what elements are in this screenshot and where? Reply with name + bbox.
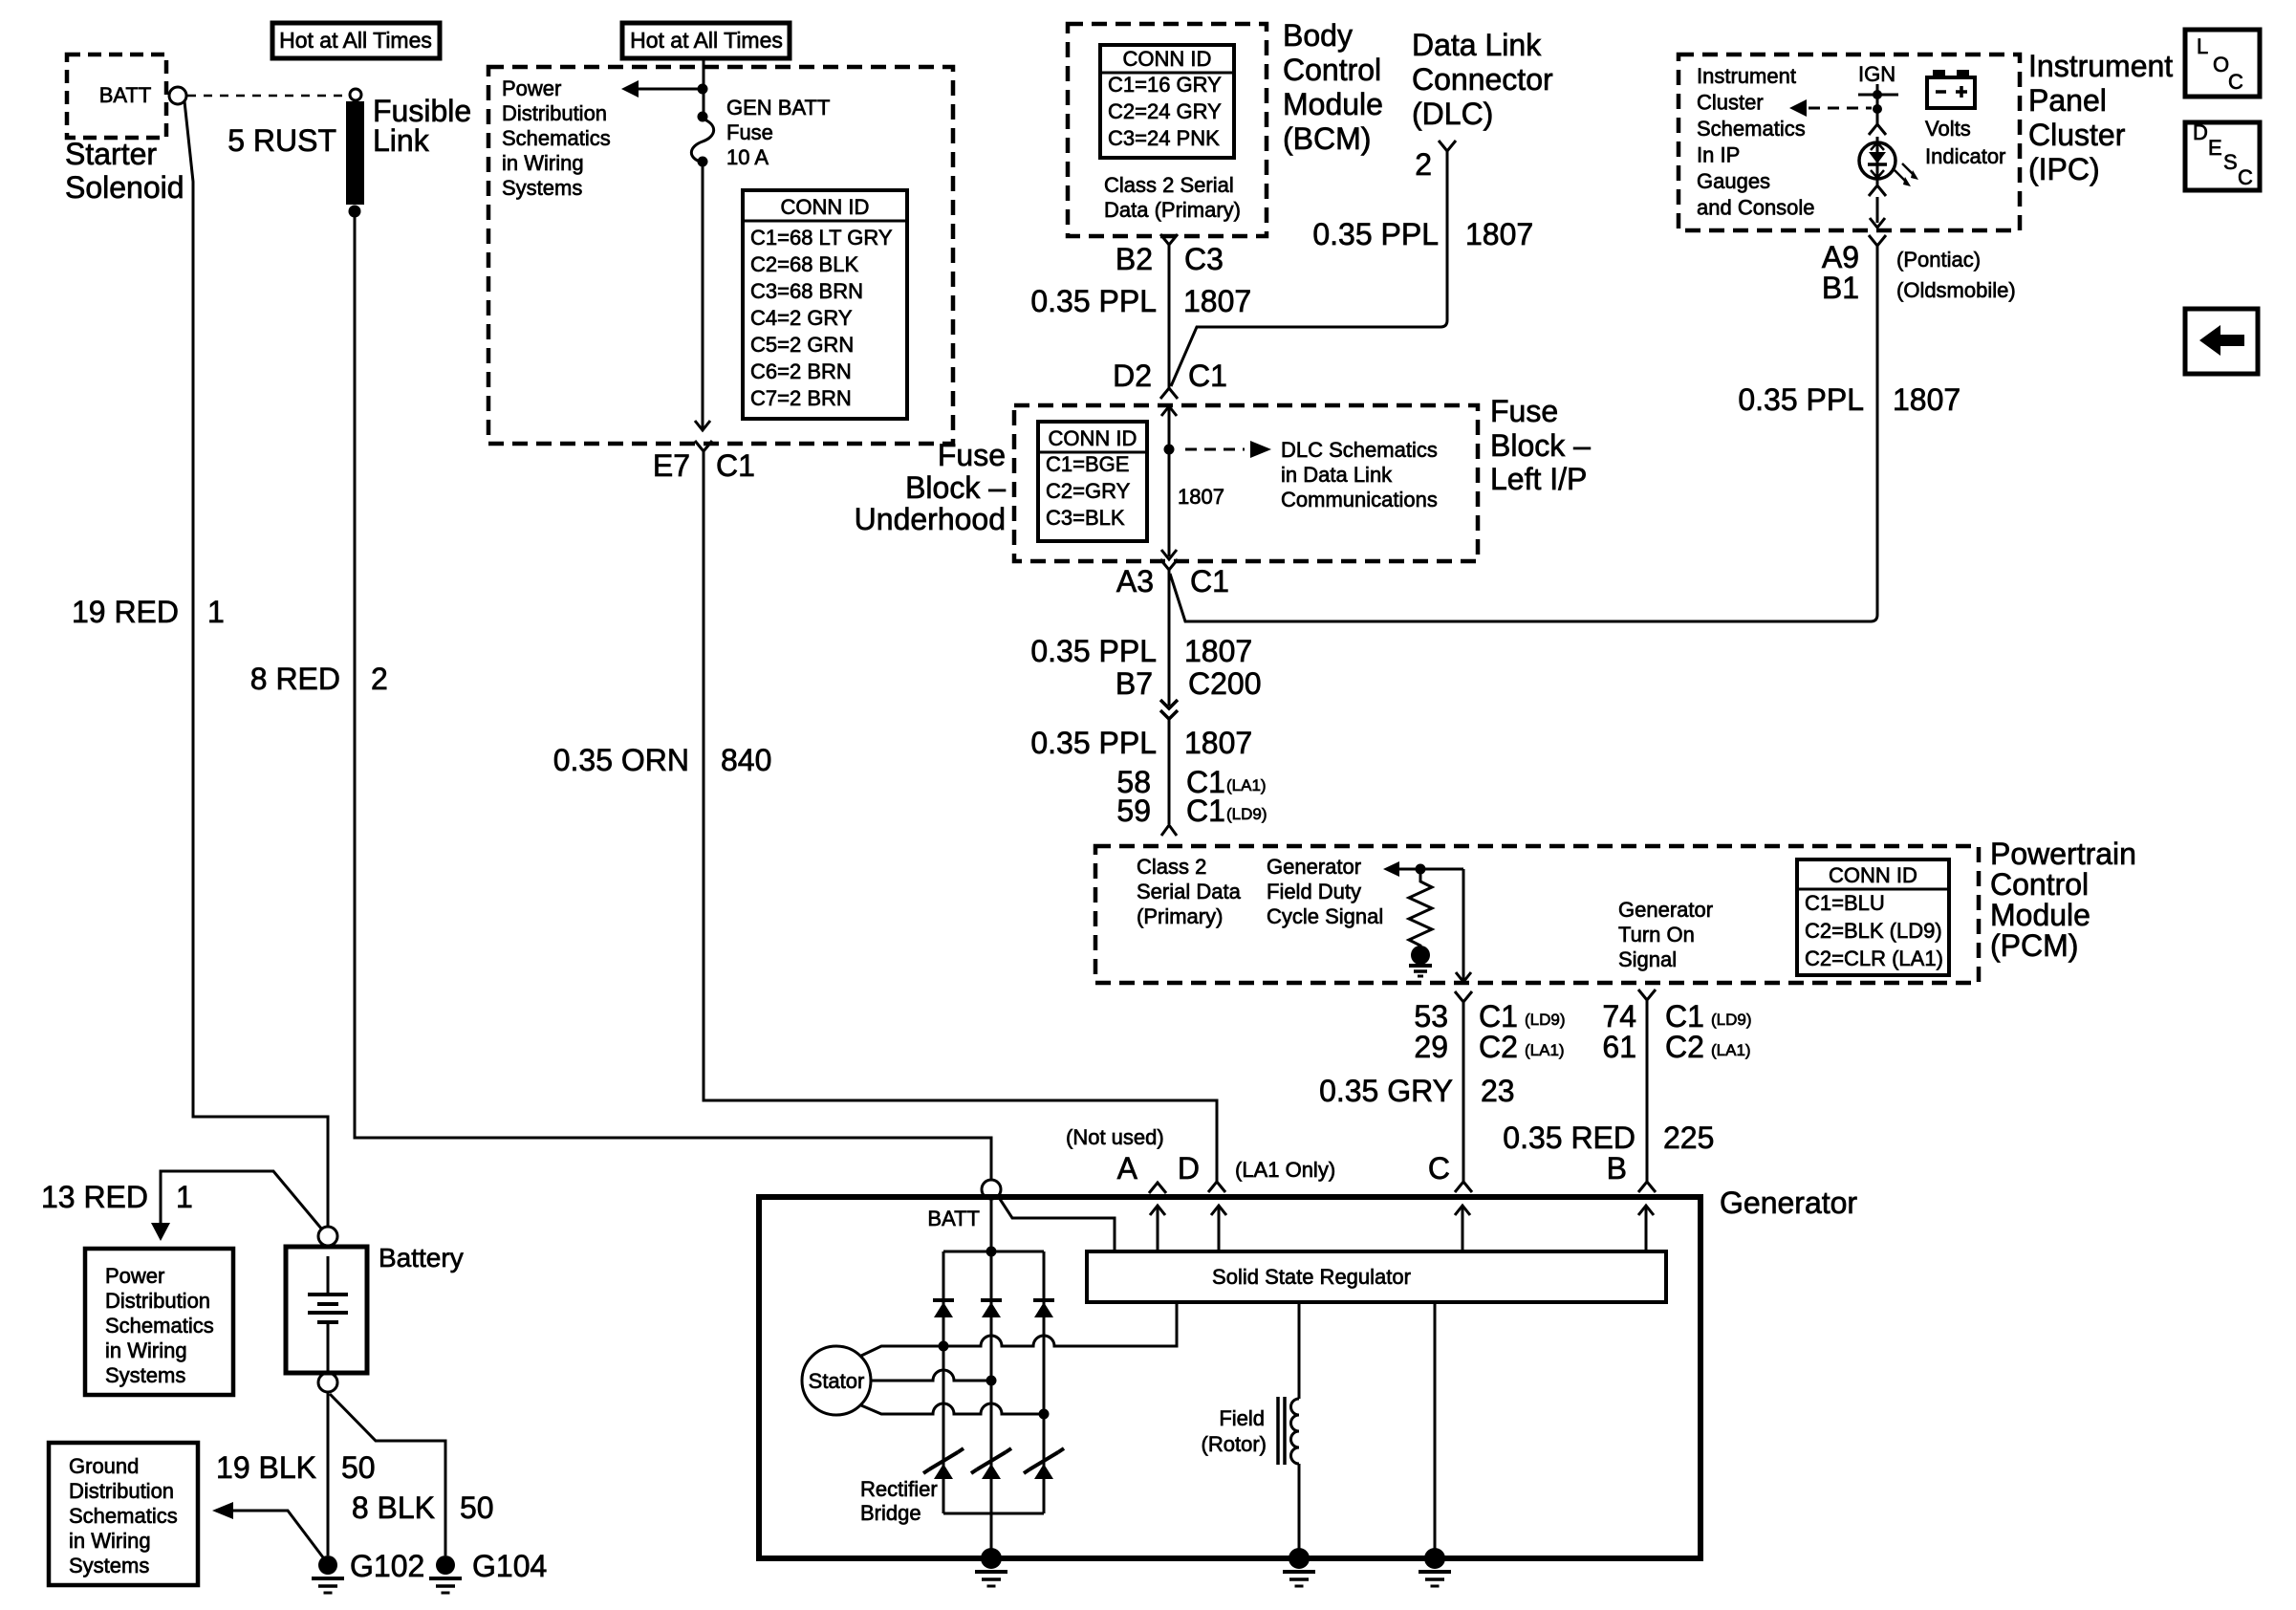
wire: class 2 serial data through left I/P fuse block [1168, 405, 1171, 556]
svg-text:(LA1): (LA1) [1226, 776, 1267, 794]
svg-text:S: S [2223, 150, 2238, 174]
svg-text:Fuse: Fuse [726, 120, 773, 144]
svg-text:Field Duty: Field Duty [1267, 880, 1361, 903]
svg-text:G104: G104 [472, 1549, 547, 1583]
node: junction dot at power distribution tap [698, 84, 708, 95]
svg-text:Cluster: Cluster [1697, 91, 1764, 115]
symbol: arrow to Power Distribution Schematics [639, 88, 703, 91]
svg-text:Module: Module [1990, 898, 2090, 932]
svg-text:B1: B1 [1822, 271, 1859, 305]
component: Field (Rotor) winding [1298, 1302, 1301, 1399]
wire: 8 RED circuit 2 from fusible link to generator BATT terminal [355, 217, 991, 1179]
svg-text:1807: 1807 [1465, 217, 1533, 251]
svg-text:1807: 1807 [1893, 382, 1960, 417]
wire: stator phase A lead to left rectifier leg and regulator [861, 1302, 1177, 1356]
svg-text:5 RUST: 5 RUST [227, 123, 336, 158]
wire: rectifier bridge negative bus [943, 1512, 1044, 1515]
svg-text:A: A [1117, 1151, 1138, 1186]
wire: 0.35 ORN circuit 840 from fuse to E7/C1 and to generator D terminal [702, 166, 704, 428]
component: volts indicator battery icon [1927, 77, 1975, 108]
svg-text:0.35 PPL: 0.35 PPL [1030, 726, 1157, 760]
svg-text:C3=68 BRN: C3=68 BRN [750, 279, 863, 303]
svg-text:B2: B2 [1116, 242, 1153, 276]
connector: D2 / C1 into left I/P fuse block [1160, 388, 1178, 399]
wire: 8 BLK circuit 50 branch to G104 [330, 1394, 445, 1556]
wire: 0.35 PPL 1807 from IPC down to class 2 junction [1871, 246, 1877, 621]
svg-text:CONN ID: CONN ID [1049, 426, 1137, 450]
svg-text:(PCM): (PCM) [1990, 928, 2078, 963]
node: junction dots on IGN feed [1873, 90, 1882, 99]
svg-text:C2=GRY: C2=GRY [1046, 479, 1131, 503]
svg-text:In IP: In IP [1697, 143, 1740, 167]
svg-text:Signal: Signal [1618, 947, 1677, 971]
svg-text:Systems: Systems [502, 176, 582, 200]
svg-text:1807: 1807 [1183, 284, 1251, 318]
component: Hot at All Times label box (middle) [622, 23, 790, 58]
svg-text:Hot at All Times: Hot at All Times [279, 28, 432, 53]
svg-text:Schematics: Schematics [69, 1504, 178, 1528]
svg-text:0.35 PPL: 0.35 PPL [1030, 634, 1157, 668]
svg-text:50: 50 [460, 1490, 494, 1525]
svg-text:0.35 PPL: 0.35 PPL [1312, 217, 1439, 251]
component: Starter Solenoid dashed box [67, 54, 166, 138]
wire: regulator output to generator terminal B [1645, 1207, 1648, 1251]
symbol: arrowhead up at terminal D [1211, 1206, 1226, 1215]
svg-text:(Rotor): (Rotor) [1202, 1432, 1267, 1456]
svg-text:in Data Link: in Data Link [1281, 463, 1393, 487]
svg-text:IGN: IGN [1858, 62, 1895, 86]
resistor: PCM internal pull-up on generator F terminal line [1409, 869, 1432, 955]
svg-text:0.35 PPL: 0.35 PPL [1030, 284, 1157, 318]
wire: regulator output to generator terminal A [1157, 1207, 1159, 1251]
symbol: arrowhead down at IPC exit [1870, 218, 1885, 228]
component: back-arrow legend box [2185, 309, 2258, 374]
svg-text:Connector: Connector [1412, 62, 1553, 97]
svg-text:in Wiring: in Wiring [105, 1338, 187, 1362]
wire: regulator ground leg [1434, 1302, 1437, 1558]
ground: G104 [436, 1556, 455, 1575]
wire: rectifier bridge left leg [942, 1251, 945, 1513]
diode: rectifier positive diode 2 [981, 1298, 1002, 1302]
svg-text:1: 1 [176, 1180, 193, 1214]
svg-text:CONN ID: CONN ID [1123, 47, 1212, 71]
component: Fuse Block - Underhood dashed box [488, 67, 953, 444]
wire: feed from Hot at All Times into fuse block [703, 60, 705, 117]
svg-text:Panel: Panel [2028, 83, 2107, 118]
wire: regulator output to generator terminal C [1462, 1207, 1464, 1251]
svg-text:C: C [1428, 1151, 1450, 1186]
connector: IPC A9/B1 fork [1869, 235, 1886, 246]
svg-text:Turn On: Turn On [1618, 923, 1695, 946]
ground: field winding to generator case [1289, 1548, 1310, 1569]
svg-text:Battery: Battery [379, 1243, 464, 1273]
wire: 19 RED circuit 1 from starter solenoid down and to battery [184, 101, 328, 1227]
svg-text:B: B [1607, 1151, 1627, 1186]
connector: generator terminal A fork (not used) [1149, 1183, 1166, 1193]
wire: 0.35 GRY circuit 23 to generator C terminal [1462, 1002, 1465, 1182]
connector: A3 / C1 below left I/P fuse block [1160, 559, 1178, 570]
svg-text:A9: A9 [1822, 240, 1859, 274]
svg-text:Solenoid: Solenoid [65, 170, 184, 205]
component: LOC legend box [2185, 30, 2260, 97]
svg-text:Block –: Block – [905, 470, 1006, 505]
svg-text:and Console: and Console [1697, 196, 1815, 220]
svg-text:23: 23 [1481, 1074, 1515, 1108]
node: junction dot stator phase B [986, 1376, 997, 1386]
svg-text:O: O [2213, 53, 2229, 76]
svg-text:Left I/P: Left I/P [1490, 462, 1587, 496]
node: junction dot stator phase A [939, 1341, 949, 1352]
symbol: arrowhead up at terminal A [1150, 1206, 1165, 1215]
connector: C200 pass-through double chevron [1160, 700, 1178, 708]
symbol: solid arrow down into Power Distribution reference box [151, 1223, 170, 1241]
svg-text:Body: Body [1283, 18, 1353, 53]
node: junction dot to DLC schematics reference [1164, 445, 1175, 455]
svg-text:Field: Field [1219, 1406, 1265, 1430]
node: generator BATT output terminal circle [982, 1180, 1001, 1199]
svg-text:Control: Control [1990, 867, 2089, 902]
svg-text:Communications: Communications [1281, 488, 1438, 511]
svg-text:2: 2 [1415, 147, 1432, 182]
svg-text:C1=BGE: C1=BGE [1046, 452, 1129, 476]
svg-text:(LA1): (LA1) [1525, 1041, 1565, 1059]
svg-text:C200: C200 [1188, 666, 1262, 701]
svg-text:225: 225 [1663, 1120, 1714, 1155]
svg-text:B7: B7 [1116, 666, 1153, 701]
svg-text:53: 53 [1414, 999, 1448, 1033]
component: Fusible Link [350, 89, 361, 100]
connector: BCM B2/C3 fork [1160, 234, 1178, 245]
component: Solid State Regulator box [1087, 1251, 1666, 1302]
component: CONN ID table (BCM) [1100, 45, 1234, 158]
svg-text:Gauges: Gauges [1697, 169, 1770, 193]
svg-text:Power: Power [502, 76, 561, 100]
svg-text:Starter: Starter [65, 137, 157, 171]
svg-text:840: 840 [721, 743, 771, 777]
symbol: arrow to generator field duty cycle signal [1383, 861, 1399, 877]
svg-text:C2=BLK (LD9): C2=BLK (LD9) [1805, 919, 1942, 943]
wire: rectifier bridge right leg [1043, 1251, 1046, 1513]
connector: DLC terminal 2 fork [1439, 141, 1456, 151]
svg-text:2: 2 [371, 662, 388, 696]
component: Powertrain Control Module dashed box [1095, 846, 1979, 983]
ground: PCM internal ground below resistor [1411, 946, 1430, 965]
svg-text:Control: Control [1283, 53, 1381, 87]
svg-text:BATT: BATT [927, 1207, 980, 1230]
wire: 13 RED circuit 1 branch to power distribution [161, 1171, 322, 1229]
svg-text:(IPC): (IPC) [2028, 152, 2100, 186]
svg-text:29: 29 [1414, 1030, 1448, 1064]
symbol: arrowhead down at fuse block exit [1161, 550, 1177, 559]
symbol: arrowhead down at PCM exit [1456, 972, 1471, 982]
node: junction dot at field duty resistor [1416, 864, 1426, 875]
svg-text:(LA1 Only): (LA1 Only) [1235, 1158, 1335, 1182]
svg-text:CONN ID: CONN ID [1829, 863, 1917, 887]
diode: rectifier positive diode 1 [933, 1298, 954, 1302]
svg-text:C5=2 GRN: C5=2 GRN [750, 333, 854, 357]
symbol: arrowhead up at fuse block entry [1161, 406, 1177, 416]
svg-text:C1: C1 [1186, 794, 1225, 828]
connector: E7 / C1 below fuse block [695, 441, 712, 451]
ground: rectifier bridge to generator case [981, 1548, 1002, 1569]
svg-text:0.35 RED: 0.35 RED [1503, 1120, 1635, 1155]
svg-text:D: D [2193, 120, 2208, 144]
svg-text:19 BLK: 19 BLK [216, 1450, 316, 1485]
connector: PCM class 2 pin fork [1161, 825, 1177, 836]
diode: rectifier zener diode 3 [1029, 1452, 1058, 1469]
wire: 19 BLK circuit 50 battery negative to G102 [327, 1392, 330, 1556]
symbol: dashed arrow to instrument cluster schematics [1809, 107, 1872, 110]
component: volts indicator LED lamp [1859, 142, 1895, 179]
svg-text:C2=68 BLK: C2=68 BLK [750, 252, 858, 276]
wire: BATT terminal to rectifier bridge and ground [990, 1199, 993, 1558]
wire: stator phase B lead [871, 1370, 991, 1381]
svg-text:Distribution: Distribution [105, 1289, 210, 1313]
node: junction dot stator phase C [1039, 1409, 1050, 1420]
svg-text:(Oldsmobile): (Oldsmobile) [1896, 278, 2016, 302]
svg-text:Systems: Systems [105, 1363, 185, 1387]
svg-text:C2=24 GRY: C2=24 GRY [1108, 99, 1222, 123]
diode: rectifier zener diode 2 [977, 1452, 1006, 1469]
svg-text:Class 2 Serial: Class 2 Serial [1104, 173, 1234, 197]
svg-text:Link: Link [373, 123, 430, 158]
svg-text:Indicator: Indicator [1925, 144, 2005, 168]
svg-text:C4=2 GRY: C4=2 GRY [750, 306, 853, 330]
node: starter solenoid BATT terminal circle [169, 87, 186, 104]
svg-text:Generator: Generator [1618, 898, 1713, 922]
symbol: arrow from ground wire to Ground Distribution reference box [212, 1502, 233, 1519]
svg-text:C6=2 BRN: C6=2 BRN [750, 359, 852, 383]
svg-text:L: L [2197, 34, 2208, 58]
svg-text:D2: D2 [1113, 359, 1152, 393]
svg-text:CONN ID: CONN ID [781, 195, 870, 219]
svg-text:(DLC): (DLC) [1412, 97, 1493, 131]
component: Instrument Panel Cluster dashed box [1679, 54, 2020, 230]
svg-text:13 RED: 13 RED [41, 1180, 148, 1214]
svg-text:Instrument: Instrument [1697, 64, 1796, 88]
svg-text:Cycle Signal: Cycle Signal [1267, 904, 1383, 928]
svg-text:(LD9): (LD9) [1226, 805, 1267, 823]
svg-text:(Primary): (Primary) [1137, 904, 1223, 928]
wire: 0.35 PPL 1807 from C200 to PCM [1168, 719, 1171, 824]
svg-text:(Not used): (Not used) [1066, 1125, 1164, 1149]
component: Stator winding circle [802, 1346, 871, 1415]
connector: internal connector fork above LED [1869, 124, 1886, 135]
svg-text:Class 2: Class 2 [1137, 855, 1206, 879]
svg-text:C2: C2 [1479, 1030, 1518, 1064]
wire: branch from A3/C1 to instrument panel cluster [1170, 574, 1872, 621]
svg-text:Generator: Generator [1267, 855, 1361, 879]
component: Body Control Module dashed box [1068, 24, 1267, 236]
component: CONN ID table (underhood fuse block) [743, 190, 907, 419]
svg-text:C3: C3 [1184, 242, 1224, 276]
svg-text:Fuse: Fuse [1490, 394, 1558, 428]
svg-text:C1: C1 [1665, 999, 1704, 1033]
ground: regulator to generator case [1424, 1548, 1445, 1569]
svg-text:Volts: Volts [1925, 117, 1971, 141]
svg-text:C7=2 BRN: C7=2 BRN [750, 386, 852, 410]
component: CONN ID table (left I/P fuse block) [1038, 422, 1147, 541]
connector: generator terminal D fork [1208, 1182, 1225, 1192]
svg-text:(BCM): (BCM) [1283, 121, 1371, 156]
symbol: LED light emission arrows [1895, 170, 1907, 183]
svg-text:D: D [1178, 1151, 1200, 1186]
svg-text:BATT: BATT [99, 83, 152, 107]
svg-text:C1: C1 [716, 448, 755, 483]
component: Ground Distribution Schematics reference box [49, 1443, 198, 1585]
component: Battery [318, 1227, 337, 1246]
svg-text:Distribution: Distribution [69, 1479, 174, 1503]
wire: 0.35 RED circuit 225 to generator B terminal [1646, 1000, 1649, 1182]
wire: BATT sense line to solid state regulator [998, 1196, 1115, 1251]
svg-text:(LA1): (LA1) [1711, 1041, 1751, 1059]
ground: G102 [318, 1556, 337, 1575]
wire: regulator output to generator terminal D [1218, 1207, 1221, 1251]
connector: PCM 74/61 fork [1638, 990, 1656, 1000]
svg-text:Hot at All Times: Hot at All Times [630, 28, 783, 53]
symbol: arrowhead down at fuse block exit [695, 421, 710, 430]
svg-text:GEN BATT: GEN BATT [726, 96, 830, 120]
component: Generator box [759, 1197, 1700, 1558]
svg-text:Ground: Ground [69, 1454, 139, 1478]
svg-text:Module: Module [1283, 87, 1383, 121]
svg-text:C3=24 PNK: C3=24 PNK [1108, 126, 1220, 150]
wire: rectifier bridge positive bus [943, 1251, 1044, 1253]
svg-text:Bridge: Bridge [860, 1501, 921, 1525]
svg-text:1807: 1807 [1184, 634, 1252, 668]
wire: stator phase C lead [861, 1403, 1044, 1414]
svg-text:C3=BLK: C3=BLK [1046, 506, 1125, 530]
svg-text:(LD9): (LD9) [1525, 1011, 1566, 1029]
svg-text:10 A: 10 A [726, 145, 769, 169]
svg-text:Block –: Block – [1490, 428, 1591, 463]
svg-text:Schematics: Schematics [502, 126, 611, 150]
svg-text:C1=BLU: C1=BLU [1805, 891, 1885, 915]
wire: volts indicator output to IPC edge [1876, 197, 1879, 223]
svg-text:Stator: Stator [809, 1369, 865, 1393]
svg-text:1: 1 [207, 595, 225, 629]
svg-text:Serial Data: Serial Data [1137, 880, 1242, 903]
diode: rectifier positive diode 3 [1033, 1298, 1054, 1302]
svg-text:Schematics: Schematics [105, 1314, 214, 1338]
connector: PCM 53/29 fork [1455, 991, 1472, 1002]
svg-text:59: 59 [1116, 794, 1151, 828]
component: Fuse Block - Left I/P dashed box [1014, 405, 1478, 561]
svg-text:C2=CLR (LA1): C2=CLR (LA1) [1805, 946, 1943, 970]
svg-text:1807: 1807 [1184, 726, 1252, 760]
svg-text:Fuse: Fuse [938, 438, 1006, 472]
svg-text:(LD9): (LD9) [1711, 1011, 1752, 1029]
svg-text:74: 74 [1602, 999, 1636, 1033]
wire: IGN feed to volts indicator LED [1876, 84, 1879, 124]
connector: generator terminal C fork [1455, 1182, 1472, 1192]
svg-text:0.35 GRY: 0.35 GRY [1319, 1074, 1453, 1108]
component: Hot at All Times label box (left) [272, 23, 440, 58]
svg-text:61: 61 [1602, 1030, 1636, 1064]
svg-text:8 BLK: 8 BLK [352, 1490, 435, 1525]
svg-text:Generator: Generator [1720, 1186, 1857, 1220]
svg-text:8 RED: 8 RED [250, 662, 340, 696]
svg-text:Distribution: Distribution [502, 101, 607, 125]
svg-text:0.35 PPL: 0.35 PPL [1738, 382, 1864, 417]
svg-text:19 RED: 19 RED [72, 595, 179, 629]
svg-text:50: 50 [341, 1450, 376, 1485]
connector: internal connector fork below LED [1869, 185, 1886, 196]
svg-text:Schematics: Schematics [1697, 117, 1806, 141]
svg-text:Systems: Systems [69, 1554, 149, 1577]
svg-text:Data (Primary): Data (Primary) [1104, 198, 1241, 222]
svg-text:in Wiring: in Wiring [69, 1529, 151, 1553]
svg-text:Powertrain: Powertrain [1990, 837, 2136, 871]
component: CONN ID table (PCM) [1797, 859, 1949, 975]
svg-text:E7: E7 [653, 448, 690, 483]
svg-text:Solid State Regulator: Solid State Regulator [1212, 1265, 1411, 1289]
svg-text:1807: 1807 [1178, 485, 1224, 509]
connector: generator terminal B fork [1638, 1182, 1656, 1192]
wire: class 2 serial data down to C200 [1168, 570, 1171, 706]
wire: dashed link from starter solenoid BATT to fusible link [187, 95, 348, 98]
svg-text:C: C [2238, 165, 2253, 189]
svg-text:(Pontiac): (Pontiac) [1896, 248, 1981, 272]
wire: generator field duty cycle signal out of PCM [1462, 869, 1465, 981]
svg-text:C1: C1 [1479, 999, 1518, 1033]
wire: 0.35 PPL 1807 from BCM to D2/C1 [1168, 245, 1171, 388]
symbol: dashed arrow to DLC Schematics reference [1185, 448, 1245, 451]
node: junction dot positive bus to BATT [986, 1247, 997, 1257]
svg-text:in Wiring: in Wiring [502, 151, 584, 175]
svg-text:C2: C2 [1665, 1030, 1704, 1064]
svg-text:Rectifier: Rectifier [860, 1477, 938, 1501]
component: DESC legend box [2185, 122, 2260, 190]
svg-text:G102: G102 [350, 1549, 424, 1583]
svg-text:Data Link: Data Link [1412, 28, 1542, 62]
svg-text:C: C [2228, 70, 2243, 94]
svg-text:Underhood: Underhood [855, 502, 1006, 536]
svg-text:Power: Power [105, 1264, 164, 1288]
svg-text:C1: C1 [1188, 359, 1227, 393]
svg-text:A3: A3 [1116, 564, 1154, 598]
wire: 0.35 PPL 1807 from DLC joining class 2 line [1171, 151, 1447, 386]
svg-text:E: E [2208, 136, 2222, 160]
svg-text:Instrument: Instrument [2028, 49, 2173, 83]
svg-text:C1: C1 [1190, 564, 1229, 598]
component: GEN BATT Fuse 10 A [698, 112, 708, 122]
symbol: arrowhead up at terminal B [1638, 1206, 1654, 1215]
diode: rectifier zener diode 1 [929, 1452, 958, 1469]
svg-text:Cluster: Cluster [2028, 118, 2126, 152]
svg-text:0.35 ORN: 0.35 ORN [553, 743, 689, 777]
component: Power Distribution Schematics reference box [85, 1249, 233, 1395]
symbol: arrowhead up at terminal C [1455, 1206, 1470, 1215]
svg-text:DLC Schematics: DLC Schematics [1281, 438, 1438, 462]
svg-text:C1=68 LT GRY: C1=68 LT GRY [750, 226, 893, 250]
wire: 0.35 ORN 840 run to generator terminal D [704, 451, 1217, 1182]
svg-text:C1=16 GRY: C1=16 GRY [1108, 73, 1222, 97]
